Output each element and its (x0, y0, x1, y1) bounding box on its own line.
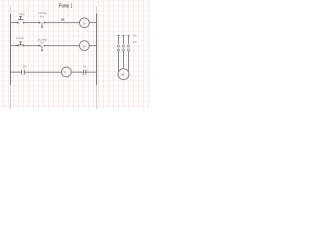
svg-text:M: M (122, 73, 125, 77)
svg-text:No: No (40, 15, 44, 19)
svg-text:R: R (64, 71, 66, 75)
phase L2 terminal (122, 35, 124, 37)
svg-text:Pump 1: Pump 1 (59, 3, 72, 9)
wire rung3 left (11, 71, 22, 73)
wire rung3 right of lamp (71, 71, 83, 73)
phase L1 wire upper (118, 36, 120, 45)
svg-text:Stop: Stop (19, 12, 25, 16)
svg-text:1M: 1M (23, 65, 28, 69)
phase L2 wire upper (123, 36, 125, 45)
svg-text:1M: 1M (133, 40, 137, 44)
phase L2 wire lower (123, 51, 125, 69)
wire rung2 left (11, 45, 18, 47)
wire rung1 to right rail (89, 22, 97, 24)
left rail (10, 14, 12, 85)
wire rung2 right (45, 45, 80, 47)
phase L1 wire lower (118, 51, 120, 72)
svg-text:1-Stop: 1-Stop (16, 36, 25, 40)
wire rung2 mid (24, 45, 40, 47)
timed contact TD1 (39, 22, 41, 24)
phase L1 terminal (117, 35, 119, 37)
right rail (96, 14, 98, 85)
motor M (118, 69, 129, 80)
wire rung3 to right rail (86, 71, 97, 73)
overload contact OL (83, 70, 85, 75)
pilot light L1 (61, 67, 71, 77)
contactor contact pole3 (127, 45, 129, 47)
phase L3 wire upper (128, 36, 130, 45)
wire rung2 to right rail (89, 45, 97, 47)
timed contact TD2 (39, 45, 41, 47)
svg-text:1M: 1M (133, 34, 137, 38)
coil M2 (80, 41, 90, 51)
contactor contact pole2 (122, 45, 124, 47)
coil M1 (80, 18, 90, 28)
phase L3 wire lower (128, 51, 130, 72)
page frame line right (faint) (96, 7, 98, 110)
contactor contact pole1 (117, 45, 119, 47)
page frame line left (faint) (10, 7, 12, 110)
svg-text:1M: 1M (60, 18, 65, 22)
svg-text:1M: 1M (82, 44, 86, 48)
svg-text:1M: 1M (82, 22, 86, 26)
phase L3 terminal (127, 35, 129, 37)
wire rung1 left (11, 22, 18, 24)
wire rung3 mid (24, 71, 61, 73)
wire rung1 mid (24, 22, 40, 24)
pushbutton PB2 (18, 42, 24, 45)
pushbutton PB1 (18, 17, 24, 20)
svg-text:No: No (40, 40, 44, 44)
contact 1M (21, 70, 23, 75)
svg-text:OL: OL (83, 64, 87, 68)
wire rung1 right (45, 22, 80, 24)
